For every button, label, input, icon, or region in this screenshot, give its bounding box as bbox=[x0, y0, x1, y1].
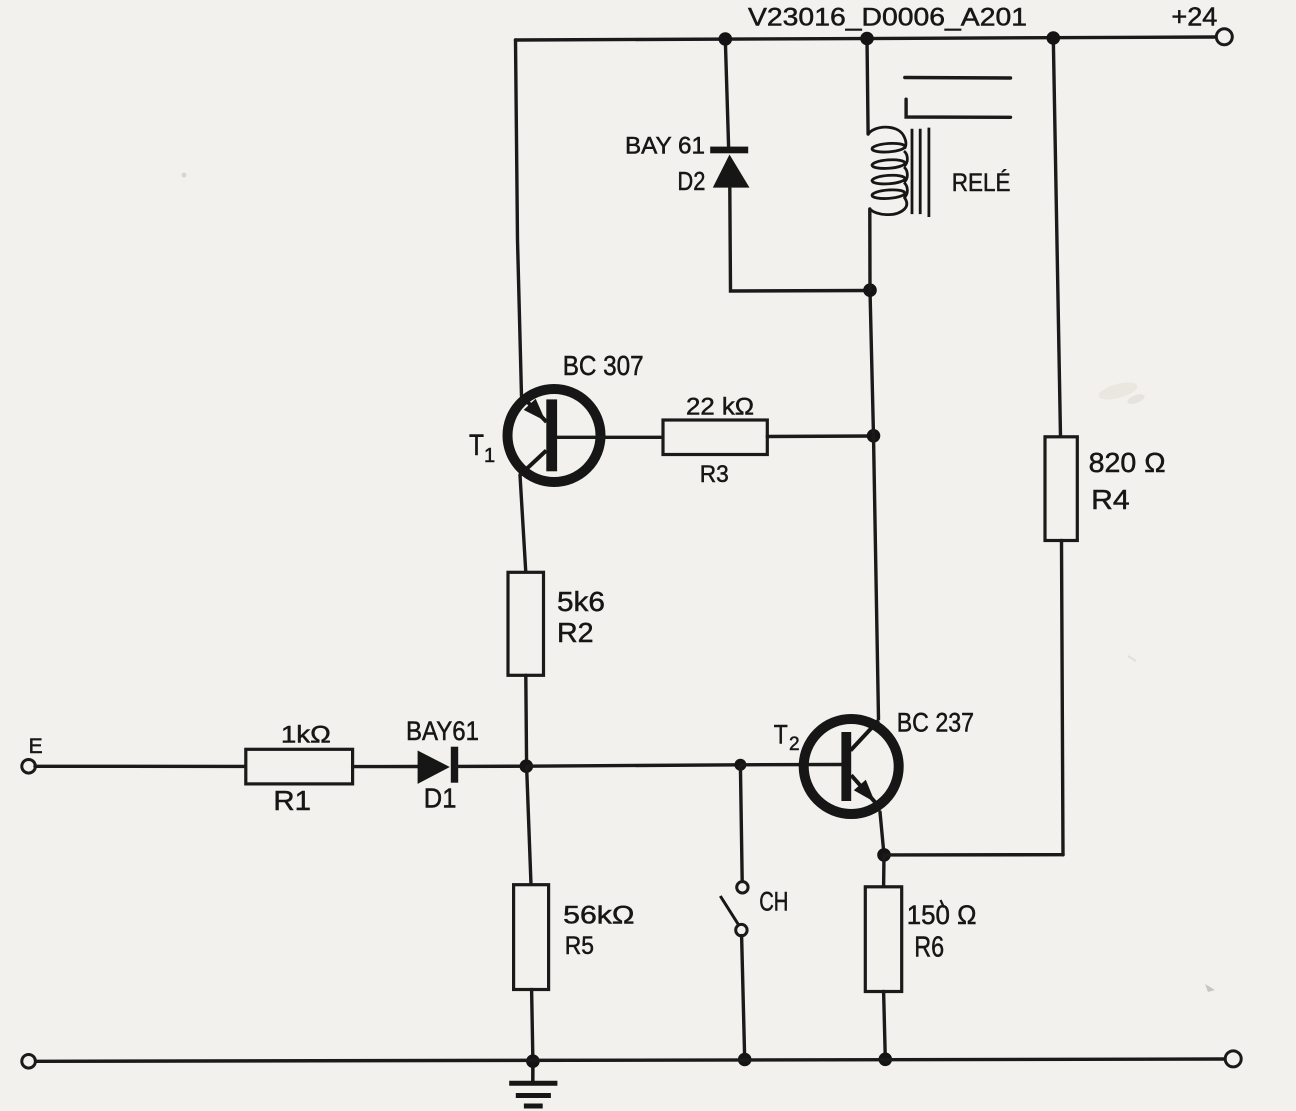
wire left branch (T1 emitter column) bbox=[516, 40, 522, 396]
diode D2 (BAY61) bbox=[710, 147, 749, 188]
node CH bottom bbox=[738, 1053, 752, 1067]
T2 emitter with arrow bbox=[851, 775, 876, 804]
wire D1 to node bbox=[456, 765, 526, 769]
T1 base bar bbox=[546, 399, 557, 471]
terminal +24 bbox=[1216, 29, 1232, 45]
svg-text:D1: D1 bbox=[424, 783, 457, 814]
wire input node to R5 bbox=[527, 766, 531, 885]
wire T1 base to R3 bbox=[558, 436, 664, 439]
svg-text:R6: R6 bbox=[914, 931, 944, 963]
wire relay coil to bottom node bbox=[868, 209, 872, 290]
svg-text:R1: R1 bbox=[273, 785, 311, 816]
svg-text:T: T bbox=[469, 429, 484, 462]
wire mid column (relay to T2 collector) bbox=[870, 290, 879, 719]
switch CH bbox=[720, 765, 748, 1060]
wire T2 emitter down bbox=[880, 812, 884, 855]
relay coil wire from rail bbox=[867, 39, 868, 135]
wire R1 to D1 bbox=[353, 765, 419, 768]
wire node to CH junction bbox=[527, 765, 741, 766]
transistor T1 (BC307) bbox=[508, 389, 601, 482]
terminal E bbox=[22, 760, 36, 774]
svg-text:D2: D2 bbox=[677, 166, 705, 196]
relay coil bbox=[868, 127, 907, 215]
wire top rail +24 bbox=[516, 37, 1217, 40]
svg-text:BC 237: BC 237 bbox=[897, 708, 974, 738]
T1 emitter with arrow bbox=[522, 396, 547, 422]
wire E to R1 bbox=[35, 765, 246, 769]
svg-text:BAY 61: BAY 61 bbox=[625, 133, 705, 160]
terminal bottom left bbox=[22, 1055, 36, 1069]
T1 collector lead bbox=[520, 451, 546, 476]
tick over 150 label bbox=[941, 900, 945, 908]
relay contact armature bbox=[906, 99, 1010, 117]
resistor R2 bbox=[508, 572, 544, 675]
wire right column above R4 bbox=[1053, 38, 1060, 437]
wire T1 collector to R2 bbox=[520, 475, 526, 572]
svg-text:R2: R2 bbox=[557, 617, 594, 648]
node relay bottom bbox=[863, 283, 877, 297]
diode D1 (BAY61) bbox=[418, 747, 459, 784]
wire D2 branch top bbox=[725, 39, 728, 147]
resistor R1 bbox=[246, 749, 353, 784]
resistor R6 bbox=[865, 887, 901, 992]
T2 collector lead bbox=[851, 721, 879, 751]
svg-text:R4: R4 bbox=[1091, 484, 1130, 515]
node top D2 bbox=[719, 32, 733, 46]
node top R4 bbox=[1047, 31, 1061, 45]
wire R5 to ground rail bbox=[532, 990, 533, 1062]
svg-text:V23016_D0006_A201: V23016_D0006_A201 bbox=[748, 4, 1027, 32]
relay contact fixed bbox=[905, 76, 1011, 80]
svg-text:R3: R3 bbox=[700, 461, 729, 488]
svg-text:BC 307: BC 307 bbox=[563, 350, 644, 381]
svg-text:T: T bbox=[774, 720, 788, 750]
T2 base bar bbox=[841, 732, 851, 801]
node CH junction bbox=[734, 759, 746, 771]
svg-text:56kΩ: 56kΩ bbox=[563, 902, 634, 930]
resistor R4 bbox=[1045, 437, 1077, 541]
wire CH junction to T2 base bbox=[740, 763, 841, 767]
svg-text:CH: CH bbox=[759, 887, 788, 917]
wire right column below R4 bbox=[1062, 541, 1064, 855]
svg-text:1: 1 bbox=[484, 445, 495, 467]
ground bbox=[509, 1061, 557, 1106]
node top relay bbox=[860, 32, 874, 46]
relay core bars bbox=[912, 128, 929, 217]
node input junction bbox=[520, 759, 534, 773]
terminal bottom right bbox=[1225, 1051, 1241, 1067]
node R6 bottom bbox=[879, 1053, 893, 1067]
wire emitter junction to R4 bottom bbox=[884, 853, 1063, 857]
resistor R3 bbox=[663, 420, 767, 455]
svg-text:2: 2 bbox=[789, 734, 800, 755]
wire (scan smudge, faint) bbox=[182, 173, 1215, 992]
wire bottom rail bbox=[35, 1059, 1226, 1061]
svg-text:5k6: 5k6 bbox=[557, 586, 605, 617]
svg-text:1kΩ: 1kΩ bbox=[281, 722, 331, 749]
wire R6 to rail bbox=[884, 992, 886, 1060]
svg-text:BAY61: BAY61 bbox=[406, 716, 479, 746]
wire R3 to mid column bbox=[767, 434, 873, 438]
resistor R5 bbox=[514, 885, 549, 990]
svg-text:E: E bbox=[29, 735, 43, 758]
svg-text:R5: R5 bbox=[565, 932, 594, 960]
svg-text:RELÉ: RELÉ bbox=[952, 168, 1011, 197]
node ground junction bbox=[526, 1054, 540, 1068]
node emitter junction bbox=[877, 848, 891, 862]
wire D2 anode to relay bottom bbox=[730, 188, 870, 291]
svg-text:820 Ω: 820 Ω bbox=[1089, 447, 1166, 478]
svg-text:+24: +24 bbox=[1171, 1, 1217, 31]
node R3-collector junction bbox=[867, 429, 881, 443]
wire R6 top bbox=[882, 855, 886, 887]
svg-text:22 kΩ: 22 kΩ bbox=[686, 394, 754, 421]
transistor T2 (BC237) bbox=[804, 719, 899, 814]
wire R2 to input node bbox=[524, 675, 528, 766]
